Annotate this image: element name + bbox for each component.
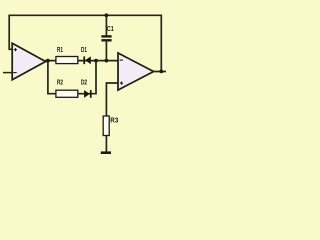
svg-text:D2: D2 <box>81 77 87 86</box>
node junction at D1/D2 cathode bus <box>94 59 98 63</box>
node junction at A1 output <box>46 59 50 63</box>
op-amp A1 minus mark (bottom input) <box>13 72 17 74</box>
wire A1 noninverting input stub <box>3 72 12 74</box>
wire top row from A1 output to A2 inverting input <box>45 60 118 62</box>
wire R2 row and up from D2 cathode to top row junction <box>56 61 96 94</box>
op-amp A1 plus mark (top input) <box>14 48 17 51</box>
svg-text:D1: D1 <box>81 45 87 54</box>
node junction at A2 output / feedback <box>159 70 163 74</box>
node junction at top rail and C1 <box>105 13 109 17</box>
capacitor C1 <box>101 35 111 41</box>
resistor R2 <box>56 90 78 97</box>
wire C1 branch upper <box>105 15 107 36</box>
svg-text:R1: R1 <box>57 45 63 54</box>
wire R3 to ground <box>105 136 107 153</box>
node junction at C1 lower / A2 inverting input <box>105 59 109 63</box>
ground <box>101 151 111 154</box>
wire A2 noninverting input down to R3 <box>106 83 118 117</box>
resistor R1 <box>56 57 78 64</box>
op-amp A2 minus mark (top input) <box>120 59 123 61</box>
svg-text:R2: R2 <box>57 77 63 86</box>
op-amp A1 <box>12 43 45 80</box>
diode D2 (pointing right, cathode bar right) <box>84 90 92 98</box>
svg-text:C1: C1 <box>107 24 114 33</box>
diode D1 (cathode bar left, pointing left) <box>83 56 90 64</box>
op-amp A2 <box>118 53 154 90</box>
wire from A1 output junction down to R2 row <box>48 61 56 94</box>
wire A2 output <box>153 71 166 73</box>
op-amp A2 plus mark (bottom input) <box>120 82 123 85</box>
wire C1 branch lower <box>105 41 107 61</box>
wire feedback rail from A2 output to A1 top input <box>9 15 161 71</box>
svg-text:R3: R3 <box>110 116 118 125</box>
resistor R3 <box>103 116 109 136</box>
